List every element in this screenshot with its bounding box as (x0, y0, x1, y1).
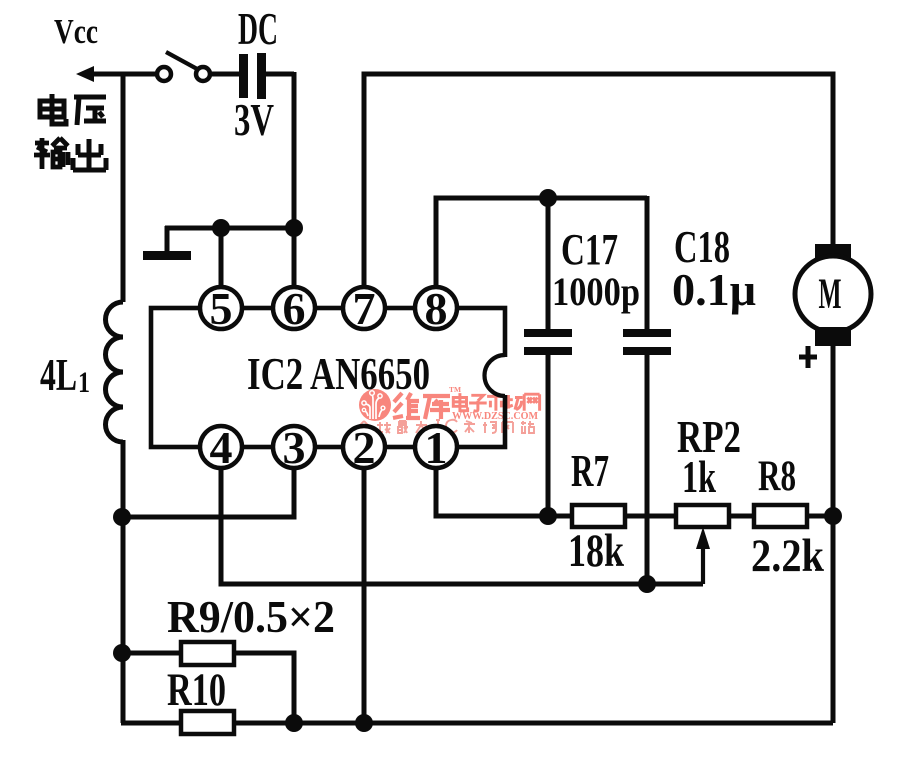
svg-text:DC: DC (238, 3, 278, 54)
svg-text:7: 7 (353, 283, 376, 334)
pin 6 (273, 283, 315, 334)
wire motor to bottom rail (831, 346, 836, 723)
node B junction dot at pin6 riser (285, 219, 303, 237)
svg-text:R9/0.5×2: R9/0.5×2 (167, 591, 335, 642)
svg-text:M: M (819, 271, 842, 318)
pin 8 (415, 283, 457, 334)
switch S1 (157, 52, 210, 81)
wire R7 to RP2 (625, 514, 676, 519)
svg-text:8: 8 (425, 283, 448, 334)
watermark slogan 全球最大IC采购网站 (359, 420, 534, 433)
svg-text:1: 1 (425, 422, 448, 473)
wire RP2 to R8 (729, 514, 754, 519)
watermark char 库 (423, 396, 450, 419)
watermark char 维 (393, 393, 420, 419)
pin 5 (200, 283, 242, 334)
svg-text:0.1μ: 0.1μ (672, 265, 756, 315)
wire R8 to motor rail (807, 514, 833, 519)
label 电 (dian) hand-drawn (40, 94, 66, 124)
wire ground rail to node B (165, 226, 294, 231)
label 输 (shu) hand-drawn (34, 138, 68, 169)
node C junction dot C17 top (539, 189, 557, 207)
wire pin6 riser (292, 228, 297, 290)
svg-text:R7: R7 (571, 446, 609, 496)
IC U1 body (151, 308, 510, 447)
pin 4 (200, 422, 242, 473)
pin 1 (415, 422, 457, 473)
svg-text:3V: 3V (234, 95, 274, 145)
pin 2 (343, 422, 385, 473)
watermark char 子 (469, 395, 487, 411)
ground (143, 226, 191, 260)
node I junction dot bottom R9 (285, 714, 303, 732)
pin 7 (343, 283, 385, 334)
wire left vertical from arrow line down to inductor (121, 74, 126, 302)
bottom rail wire (234, 721, 833, 726)
resistor R8 (751, 453, 825, 582)
svg-text:4L: 4L (40, 350, 77, 400)
watermark layer (359, 385, 540, 433)
svg-text:1k: 1k (682, 451, 716, 502)
wire pin4 drop and feedback rail to RP2 wiper (221, 468, 703, 584)
node D junction dot left rail upper (113, 508, 131, 526)
pin 3 (273, 422, 315, 473)
watermark char 电 (small) (453, 393, 467, 411)
wire pin1 drop to R7 rail (436, 468, 574, 516)
svg-text:5: 5 (210, 283, 233, 334)
node H junction dot left rail R9 (113, 644, 131, 662)
svg-text:R8: R8 (758, 453, 796, 500)
svg-text:3: 3 (283, 422, 306, 473)
resistor R10 (121, 664, 234, 734)
svg-text:6: 6 (283, 283, 306, 334)
svg-text:18k: 18k (568, 525, 625, 577)
wire pin7 riser and top rail to motor (364, 74, 833, 290)
motor M (795, 244, 871, 368)
node A junction dot at pin5 riser (212, 219, 230, 237)
resistor R7 (568, 446, 625, 577)
wire pin8 riser to C17/C18 rail (436, 198, 647, 290)
label 压 (ya) hand-drawn (74, 97, 106, 125)
svg-text:4: 4 (210, 422, 233, 473)
svg-text:IC2 AN6650: IC2 AN6650 (247, 348, 430, 399)
wire pin5 riser (219, 228, 224, 290)
wire switch to battery (210, 72, 240, 77)
svg-text:1000p: 1000p (552, 269, 640, 314)
resistor R9 (122, 591, 335, 723)
node F junction dot C18 bottom (638, 575, 656, 593)
svg-text:TM: TM (449, 385, 461, 394)
potentiometer RP2 (676, 412, 741, 584)
wire battery to node B (265, 72, 294, 228)
watermark char 场 (504, 394, 523, 409)
watermark char 网 (524, 394, 539, 411)
svg-text:2.2k: 2.2k (751, 530, 825, 582)
svg-text:R10: R10 (167, 664, 226, 716)
node G junction dot motor rail (824, 507, 842, 525)
svg-text:C17: C17 (561, 225, 618, 274)
wire Vcc output arrow (76, 66, 158, 82)
label 出 (chu) hand-drawn (73, 139, 106, 170)
svg-text:1: 1 (78, 366, 90, 399)
node J junction dot bottom pin2 (355, 714, 373, 732)
battery DC 3V (234, 3, 278, 145)
wire pin2 drop to bottom rail (362, 468, 367, 723)
watermark char 市 (487, 393, 505, 411)
svg-text:Vcc: Vcc (54, 12, 98, 51)
capacitor C18 (623, 196, 756, 584)
wire pin3 drop to left rail (121, 468, 294, 517)
watermark logo disc (359, 389, 391, 421)
svg-text:2: 2 (353, 422, 376, 473)
node E junction dot C17 bottom (539, 507, 557, 525)
svg-text:WWW.DZSC.COM: WWW.DZSC.COM (452, 411, 539, 422)
inductor 4L1 (40, 302, 123, 723)
capacitor C17 (524, 198, 640, 516)
